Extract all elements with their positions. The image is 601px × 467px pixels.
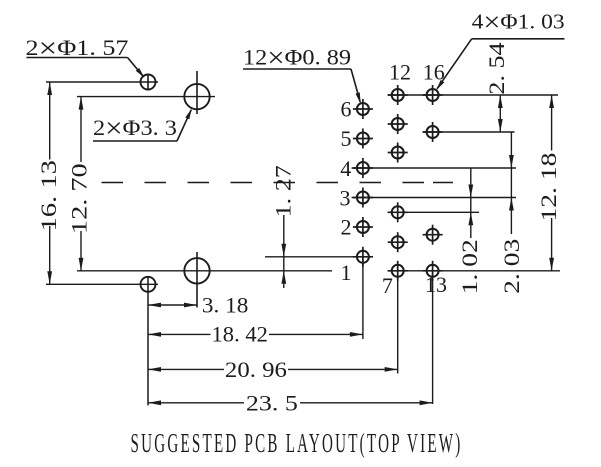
pin hole 12 (middle column Φ0.89) [388,85,408,105]
dimension 2.03 (row offset) [499,132,524,294]
dashed horizontal centerline [102,182,454,184]
row line pin 4 [352,167,516,169]
svg-text:12: 12 [389,60,411,85]
row line pin 15 [423,131,515,133]
mounting hole M3 bottom Φ3.3 with crosshair [184,252,209,308]
svg-text:16. 13: 16. 13 [36,160,61,232]
svg-text:1. 27: 1. 27 [270,165,295,217]
dimension 1.27 (row 1 offset) [270,165,295,288]
svg-text:2: 2 [341,215,352,240]
pin hole 4 (left column Φ0.89) [353,158,373,178]
pin label 4 [340,156,351,181]
extension line below pin 7 [397,271,399,374]
row line middle pin [388,211,479,213]
pin hole 15 (right column Φ1.03) [423,122,443,142]
dimension 1.02 (row offset) [457,168,482,294]
dimension 12.18 (right pin span) [536,95,561,271]
extension line below pin 13 [432,271,434,404]
dimension 23.5 [148,390,433,415]
svg-text:23. 5: 23. 5 [246,390,298,415]
top pin row line (pins 12-16) [388,94,558,96]
label 4×Φ1.03 for pin holes [436,7,564,90]
pin label 6 [341,97,352,122]
svg-text:5: 5 [341,126,352,151]
pin hole 10 (middle column Φ0.89) [388,143,408,163]
extension line through M3 (bottom of 12.70) [77,270,332,272]
extension line through M2 (top of 12.70) [77,96,215,98]
svg-text:1: 1 [341,260,352,285]
svg-text:2×Φ1. 57: 2×Φ1. 57 [26,34,129,65]
pin label 12 [389,60,411,85]
dimension 16.13 vertical left [36,82,61,284]
svg-text:12. 18: 12. 18 [536,153,561,222]
pin hole 3 (left column Φ0.89) [353,188,373,208]
pin label 16 [423,60,445,85]
svg-text:3: 3 [340,186,351,211]
svg-text:2. 03: 2. 03 [499,239,524,294]
svg-text:12. 70: 12. 70 [67,163,92,234]
pin hole 5 (left column Φ0.89) [353,129,373,149]
pin label 2 [341,215,352,240]
svg-text:2. 54: 2. 54 [484,42,509,94]
pin label 5 [341,126,352,151]
dimension 12.70 vertical left [67,97,92,271]
pin hole 2 (left column Φ0.89) [353,217,373,237]
svg-text:7: 7 [382,273,393,298]
svg-text:18. 42: 18. 42 [212,321,268,346]
pin hole 13 (right column Φ1.03) [423,261,443,281]
svg-text:4: 4 [340,156,351,181]
svg-text:4×Φ1. 03: 4×Φ1. 03 [472,7,565,37]
pin label 13 [425,272,447,297]
pin hole 6 (left column Φ0.89) [353,99,373,119]
dimension 3.18 [148,293,248,318]
pin hole 14 (right column Φ1.03) [423,225,443,245]
svg-text:20. 96: 20. 96 [225,357,287,382]
extension line left of M4 (bottom of 16.13) [46,283,158,285]
pin hole 9 (middle column Φ0.89) [388,202,408,222]
svg-text:6: 6 [341,97,352,122]
dimension 18.42 [148,321,363,346]
pin hole 8 (middle column Φ0.89) [388,232,408,252]
svg-text:1. 02: 1. 02 [457,239,482,294]
pin hole 16 (right column Φ1.03) [423,85,443,105]
pin label 7 [382,273,393,298]
caption SUGGESTED PCB LAYOUT(TOP VIEW) [131,428,463,458]
mounting hole M1 top-left Φ1.57 with crosshair [141,74,156,91]
label 2×Φ1.57 for mounting holes [26,34,145,78]
row line pin 1 [265,256,373,258]
pin hole 7 (middle column Φ0.89) [388,261,408,281]
svg-text:2×Φ3. 3: 2×Φ3. 3 [93,114,177,145]
pin label 3 [340,186,351,211]
svg-text:3. 18: 3. 18 [202,293,249,318]
label 12×Φ0.89 for pin holes [243,43,361,104]
bottom pin row line (pins 7-13) [388,270,560,272]
dimension 20.96 [148,357,398,382]
row line pin 3 [352,197,516,199]
mounting hole M4 bottom-left Φ1.57 with crosshair [141,276,156,406]
label 2×Φ3.3 for large holes [93,108,192,144]
svg-text:13: 13 [425,272,447,297]
mounting hole M2 top Φ3.3 with crosshair [184,71,209,114]
extension line left of M1 (top of 16.13) [46,81,158,83]
pin hole 11 (middle column Φ0.89) [388,114,408,134]
extension line below pin 1 [362,257,364,339]
svg-text:16: 16 [423,60,445,85]
dimension 2.54 (top right pin pitch) [484,42,509,132]
pin label 1 [341,260,352,285]
svg-text:SUGGESTED PCB LAYOUT(TOP VIEW): SUGGESTED PCB LAYOUT(TOP VIEW) [131,428,463,458]
pin hole 1 (left column Φ0.89) [353,247,373,267]
